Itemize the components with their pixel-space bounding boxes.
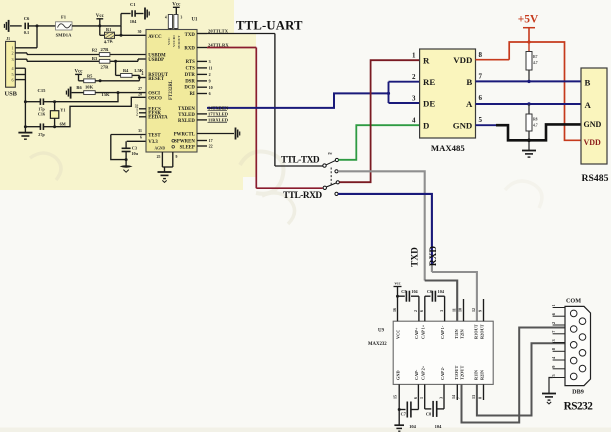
svg-text:5: 5 [479, 116, 483, 124]
svg-text:104: 104 [438, 289, 445, 294]
svg-text:TXD: TXD [411, 247, 421, 267]
svg-text:6M: 6M [60, 121, 66, 126]
svg-text:R7: R7 [533, 55, 538, 59]
svg-text:2: 2 [551, 322, 556, 324]
wire C6 to F1 [28, 25, 55, 27]
svg-text:14TXDEN: 14TXDEN [208, 106, 229, 111]
svg-text:C5: C5 [401, 289, 406, 294]
svg-text:MAX232: MAX232 [368, 342, 387, 347]
svg-text:C16: C16 [38, 111, 45, 116]
svg-text:U1: U1 [192, 18, 198, 23]
wire down to R1 [99, 26, 101, 35]
MAX232 bottom pin stubs [456, 384, 458, 400]
switch pole 1 blade [326, 161, 335, 165]
svg-text:C1: C1 [130, 2, 136, 7]
svg-text:11: 11 [209, 66, 213, 71]
svg-text:4.7: 4.7 [533, 124, 538, 128]
wire crystal to OSCI [55, 93, 118, 102]
svg-text:F1: F1 [61, 15, 67, 20]
svg-text:3: 3 [551, 339, 556, 341]
chip U? MAX485 body [420, 49, 476, 138]
net label TTLTX [197, 33, 207, 35]
svg-text:10K: 10K [85, 85, 94, 90]
svg-text:9: 9 [209, 79, 211, 84]
PWRCTL wire and sideways ground [197, 133, 234, 135]
ground (C1 right, sideways) [135, 13, 143, 15]
svg-text:2: 2 [413, 310, 418, 312]
svg-text:TXD: TXD [185, 33, 196, 38]
svg-text:6: 6 [419, 310, 424, 312]
wire TTL-RXD (maroon) from FT232 RXD to switch [207, 47, 256, 49]
RESET wire into chip [139, 77, 146, 79]
wire RXD gray into MAX232 [432, 272, 477, 321]
svg-text:U9: U9 [378, 329, 384, 334]
svg-text:3V3OUT: 3V3OUT [177, 35, 181, 49]
svg-text:11RXLED: 11RXLED [208, 118, 229, 123]
svg-text:2: 2 [136, 112, 138, 116]
svg-text:R: R [423, 55, 430, 65]
ground (R6 left, sideways) [66, 87, 70, 99]
svg-text:R4: R4 [123, 68, 129, 73]
svg-text:SMD1A: SMD1A [56, 33, 73, 38]
svg-text:FT232RL: FT232RL [169, 80, 174, 100]
svg-text:RS485: RS485 [582, 173, 609, 184]
ground (FT232) [158, 171, 172, 173]
svg-text:1: 1 [419, 397, 424, 399]
svg-text:RE: RE [423, 77, 435, 87]
svg-text:J1: J1 [6, 37, 10, 41]
switch mechanical link (dashed) [330, 168, 332, 187]
svg-text:25: 25 [157, 155, 161, 159]
fuse F1 SMD1A [56, 22, 73, 30]
svg-text:+5V: +5V [518, 13, 539, 25]
svg-text:D: D [423, 120, 429, 130]
earth ground (C3) [120, 165, 133, 168]
svg-text:C6: C6 [24, 16, 30, 21]
wire A (navy) MAX485 pin6 to RS485 [476, 103, 582, 105]
svg-text:EEDATA: EEDATA [148, 116, 168, 121]
MAX232 bottom: GND pin 15 + ground [398, 384, 400, 409]
svg-text:27R: 27R [101, 47, 110, 52]
yellow highlighted TTL-UART block background [0, 0, 256, 190]
svg-text:CTS: CTS [185, 66, 195, 71]
svg-text:C15: C15 [38, 88, 47, 93]
svg-text:22: 22 [209, 144, 213, 149]
wire VDD pin8 [476, 59, 510, 61]
svg-text:2: 2 [209, 72, 211, 77]
svg-text:vcc: vcc [394, 281, 400, 286]
capacitor C6b 104 [424, 296, 426, 321]
USB connector J1 [6, 41, 16, 87]
svg-text:GND: GND [584, 120, 602, 129]
svg-text:CAP 1+: CAP 1+ [421, 324, 426, 339]
svg-text:USBDP: USBDP [148, 58, 164, 63]
svg-text:TTL-UART: TTL-UART [236, 18, 303, 32]
svg-text:5: 5 [551, 374, 556, 376]
svg-text:TXLED: TXLED [178, 113, 195, 118]
svg-text:VCCIO: VCCIO [172, 35, 176, 47]
switch contact (gray/TXD to 232) [335, 170, 338, 173]
svg-text:RXLED: RXLED [178, 119, 195, 124]
svg-text:RI: RI [189, 92, 194, 97]
svg-text:R6: R6 [76, 85, 82, 90]
resistor R1 4.7K [105, 32, 115, 38]
svg-text:R2IN: R2IN [479, 369, 484, 380]
switch contact (maroon/RXD from 485) [336, 181, 339, 184]
svg-text:RXD: RXD [429, 246, 439, 266]
svg-text:1: 1 [551, 304, 556, 306]
svg-text:A: A [466, 99, 473, 109]
capacitor C1 104 [131, 10, 133, 17]
svg-text:B: B [466, 77, 472, 87]
svg-text:COM: COM [566, 298, 581, 305]
DB9 holes [570, 310, 577, 317]
svg-text:15: 15 [393, 395, 398, 399]
wire B (navy) MAX485 pin7 to RS485 [476, 80, 582, 82]
svg-text:sw: sw [328, 152, 333, 156]
switch contact (green/TXD to 485) [335, 158, 338, 161]
wire MAX232 R1IN to DB9 pin2 [477, 343, 565, 415]
svg-text:PWRCTL: PWRCTL [174, 133, 195, 138]
svg-text:C6: C6 [427, 289, 432, 294]
svg-text:Y1: Y1 [60, 107, 65, 112]
shield wire down to caps/crystal [24, 68, 26, 132]
capacitor C15 [25, 101, 40, 103]
svg-text:6: 6 [209, 91, 211, 96]
svg-text:9: 9 [478, 310, 483, 312]
wire TXD gray into MAX232 [425, 281, 458, 322]
svg-text:17TXLED: 17TXLED [208, 112, 229, 117]
svg-text:RXD: RXD [184, 47, 195, 52]
svg-text:C7: C7 [401, 412, 407, 417]
op-amp U1 FT232RL chip body [146, 30, 197, 153]
switch pole 2 blade [326, 183, 336, 187]
svg-text:6: 6 [12, 77, 14, 82]
net label TTLRX [197, 47, 207, 49]
switch pole 2 common [323, 186, 326, 189]
svg-text:4: 4 [165, 16, 167, 20]
chip U9 MAX232 body [393, 321, 493, 384]
svg-text:CAP-: CAP- [414, 369, 419, 380]
svg-text:TEST: TEST [148, 133, 161, 138]
svg-text:TXDEN: TXDEN [178, 107, 195, 112]
wire TEST loop and capacitor C3 [111, 134, 146, 136]
net labels TXDEN/TXLED/RXLED [197, 113, 207, 115]
svg-text:6: 6 [479, 94, 483, 102]
svg-text:2: 2 [412, 73, 416, 81]
svg-text:R8: R8 [533, 118, 538, 122]
svg-text:31: 31 [138, 129, 142, 133]
svg-text:4: 4 [142, 72, 144, 76]
svg-text:0.1: 0.1 [24, 30, 30, 35]
ground (R8) [522, 150, 536, 152]
svg-text:RTS: RTS [186, 60, 195, 65]
wire USBDP with resistor R3 27R [27, 60, 138, 62]
svg-text:27p: 27p [38, 132, 45, 137]
svg-text:8: 8 [479, 51, 483, 59]
wire gray: switch to MAX232 T1IN (TXD) [338, 171, 425, 280]
svg-text:VCC: VCC [167, 37, 171, 45]
wire blue: switch to MAX232 R1OUT (RXD) [338, 194, 432, 264]
svg-text:SPWREN: SPWREN [174, 139, 195, 144]
svg-text:A: A [585, 100, 592, 110]
svg-text:AGND: AGND [155, 147, 166, 151]
branch up to C1 [120, 26, 122, 35]
chip bottom ground stubs [161, 152, 163, 167]
svg-text:1: 1 [412, 52, 416, 60]
resistor R5 10K [84, 79, 96, 83]
wire green: switch to MAX485 D [338, 125, 419, 160]
svg-text:3: 3 [439, 397, 444, 399]
ground (DB9) [542, 393, 556, 395]
wire USBDM with resistor R2 27R [27, 54, 99, 56]
svg-text:R1OUT: R1OUT [474, 324, 479, 339]
svg-text:9: 9 [551, 366, 556, 368]
wire GND (black thick) MAX485 pin5 to RS485 [476, 124, 497, 126]
svg-text:15K: 15K [101, 92, 110, 97]
svg-text:3: 3 [209, 59, 211, 64]
svg-text:C8: C8 [426, 412, 431, 417]
wire TTL-TXD (black) from FT232 TXD to switch [207, 33, 275, 35]
capacitor C16 [25, 126, 40, 128]
svg-text:C3: C3 [132, 146, 137, 151]
svg-text:104: 104 [409, 424, 417, 429]
svg-text:4.7: 4.7 [533, 61, 538, 65]
svg-text:R1IN: R1IN [474, 369, 479, 380]
svg-text:VDD: VDD [584, 138, 602, 147]
svg-text:8: 8 [551, 348, 556, 350]
svg-text:CAP 1-: CAP 1- [440, 325, 445, 339]
svg-text:3: 3 [12, 57, 14, 62]
svg-text:MAX485: MAX485 [431, 143, 465, 153]
ground (C6 left, sideways) [10, 25, 22, 27]
svg-text:6: 6 [140, 136, 142, 140]
wire MAX232 T1OUT to DB9 pin3 [462, 328, 566, 423]
right short stubs RTS..RI [197, 60, 207, 62]
svg-text:8: 8 [478, 397, 483, 399]
svg-text:TTL-RXD: TTL-RXD [283, 191, 322, 201]
svg-text:RS232: RS232 [564, 401, 594, 413]
svg-text:DTR: DTR [185, 73, 196, 78]
svg-text:9: 9 [176, 155, 178, 159]
svg-text:USB: USB [5, 91, 18, 98]
resistor R7 (pull-up to B) [528, 42, 530, 52]
resistor R6 15K [84, 91, 96, 95]
crystal Y1 6M [53, 100, 56, 103]
svg-text:27R: 27R [101, 64, 110, 69]
svg-text:3: 3 [439, 310, 444, 312]
switch contact (blue/RXD from 232) [335, 192, 338, 195]
+5V red wiring [509, 42, 581, 140]
svg-text:SLEEP: SLEEP [180, 145, 195, 150]
capacitor C6 [24, 23, 26, 30]
switch pole 1 common [323, 164, 326, 167]
svg-text:10: 10 [209, 85, 213, 90]
svg-text:104: 104 [435, 424, 443, 429]
svg-text:DE: DE [423, 98, 435, 108]
MAX232 top pin stubs [463, 299, 465, 321]
svg-text:DB9: DB9 [572, 389, 584, 396]
faint watermark swirls [30, 152, 295, 225]
svg-text:TTL-TXD: TTL-TXD [281, 155, 320, 165]
svg-text:7: 7 [479, 73, 483, 81]
USB pin stubs [15, 47, 37, 49]
svg-text:RESET: RESET [148, 77, 165, 82]
SPWREN/SLEEP stubs [197, 140, 207, 142]
wire to capacitor C1 [120, 14, 122, 26]
branch to resistor R4 1.5K [115, 61, 117, 75]
svg-text:R1: R1 [106, 27, 111, 32]
svg-text:DCD: DCD [184, 86, 195, 91]
connector DB9 (COM) body [565, 306, 591, 385]
svg-text:17: 17 [209, 138, 213, 143]
svg-text:10: 10 [458, 308, 463, 312]
capacitor C5 104 [398, 295, 405, 297]
svg-text:11: 11 [451, 308, 456, 312]
svg-text:30: 30 [138, 30, 142, 34]
wire R1 to AVCC pin [115, 34, 147, 36]
svg-text:CAP 2+: CAP 2+ [421, 365, 426, 380]
svg-text:16: 16 [392, 308, 397, 312]
svg-text:GND: GND [396, 370, 401, 380]
svg-text:27: 27 [138, 87, 142, 91]
svg-text:VCC: VCC [396, 330, 401, 339]
svg-text:6: 6 [413, 397, 418, 399]
capacitor C8 104 [424, 384, 426, 409]
svg-text:T2OUT: T2OUT [459, 366, 464, 380]
svg-text:3: 3 [181, 16, 183, 20]
ground (USB shield) [18, 132, 32, 134]
svg-text:GND: GND [453, 120, 473, 130]
svg-text:R2: R2 [92, 48, 97, 53]
svg-text:T1OUT: T1OUT [454, 366, 459, 380]
svg-text:2: 2 [12, 51, 14, 56]
wire TXDEN (navy) from FT232 to MAX485 RE/DE [207, 93, 389, 108]
svg-text:T2IN: T2IN [459, 328, 464, 339]
wire F1 to Vcc junction [72, 25, 121, 27]
EEPROM stubs [139, 108, 146, 110]
svg-text:3: 3 [412, 95, 416, 103]
DB9 pin stubs and numbers [553, 307, 565, 309]
svg-text:T1IN: T1IN [454, 328, 459, 339]
svg-text:28: 28 [138, 92, 142, 96]
DB9 pin5 to ground [549, 378, 553, 394]
svg-text:CAP+: CAP+ [414, 327, 419, 339]
svg-text:7: 7 [456, 397, 461, 399]
svg-text:V3.3: V3.3 [148, 140, 158, 145]
svg-text:12: 12 [471, 308, 476, 312]
svg-text:OSCO: OSCO [148, 96, 162, 101]
svg-text:CAP 2-: CAP 2- [440, 366, 445, 380]
connector RS485 body [581, 68, 607, 164]
svg-text:4: 4 [412, 117, 416, 125]
svg-text:13: 13 [471, 395, 476, 399]
svg-text:AVCC: AVCC [148, 35, 162, 40]
svg-text:DSR: DSR [185, 79, 195, 84]
svg-text:B: B [585, 77, 591, 87]
capacitor C7 104 [399, 409, 405, 411]
wire crystal to OSCO [55, 97, 146, 126]
svg-text:104: 104 [411, 289, 418, 294]
wire maroon: MAX485 R to switch [339, 60, 419, 182]
svg-text:10u: 10u [131, 151, 138, 156]
svg-text:R2OUT: R2OUT [479, 324, 484, 339]
svg-text:R5: R5 [87, 74, 93, 79]
svg-text:VDD: VDD [453, 55, 472, 65]
resistor R8 (A to GND) [528, 104, 530, 114]
svg-text:104: 104 [130, 19, 137, 24]
svg-text:R3: R3 [92, 56, 98, 61]
